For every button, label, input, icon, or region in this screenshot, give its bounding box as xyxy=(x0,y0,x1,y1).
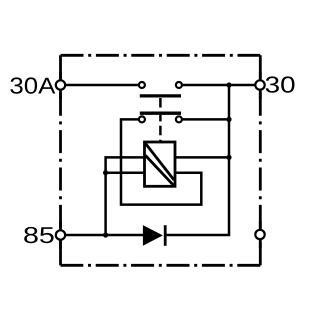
label 30A xyxy=(10,77,55,93)
contact row2 left circle xyxy=(139,116,145,122)
contact bridge bar upper xyxy=(140,94,181,97)
wire main right vertical bus xyxy=(165,85,229,235)
wire contact to 30 terminal xyxy=(183,84,261,87)
junction dot 85 line xyxy=(103,232,108,237)
contact row1 right circle xyxy=(176,82,182,88)
contact row2 right circle xyxy=(176,116,182,122)
actuator dashed link xyxy=(159,98,162,142)
junction dot bus row2 xyxy=(226,117,231,122)
relay enclosure dash-dot border xyxy=(61,55,261,265)
label 85 xyxy=(24,227,53,243)
coil stripe diagonal upper xyxy=(146,144,175,181)
terminal 30A circle xyxy=(56,80,65,89)
relay coil K1 box xyxy=(145,142,176,186)
junction dot bus coil wire xyxy=(226,155,231,160)
wire 30A terminal to contact xyxy=(61,84,139,87)
wire row2 right contact to bus xyxy=(183,118,230,121)
junction dot at bus top xyxy=(226,82,231,87)
border stubs at terminals xyxy=(61,72,261,249)
wire coil upper-right to bus xyxy=(175,156,229,159)
terminal 86 circle (unlabeled) xyxy=(255,230,264,239)
junction dot coil left branch xyxy=(103,170,108,175)
label 30 xyxy=(266,76,295,92)
contact row1 left circle xyxy=(139,82,145,88)
wire coil lower-left branch xyxy=(106,171,145,174)
terminal 30 circle xyxy=(255,80,264,89)
coil stripe diagonal lower xyxy=(146,156,175,186)
contact bridge bar lower xyxy=(140,112,181,115)
wire coil upper-left to 85 line xyxy=(106,157,145,235)
wire coil lower-right loop to row2 left contact xyxy=(121,119,201,204)
wire 85 terminal to diode xyxy=(61,234,144,237)
terminal 85 circle xyxy=(56,230,65,239)
diode V1 triangle xyxy=(143,226,161,245)
diode cathode bar xyxy=(164,225,167,246)
